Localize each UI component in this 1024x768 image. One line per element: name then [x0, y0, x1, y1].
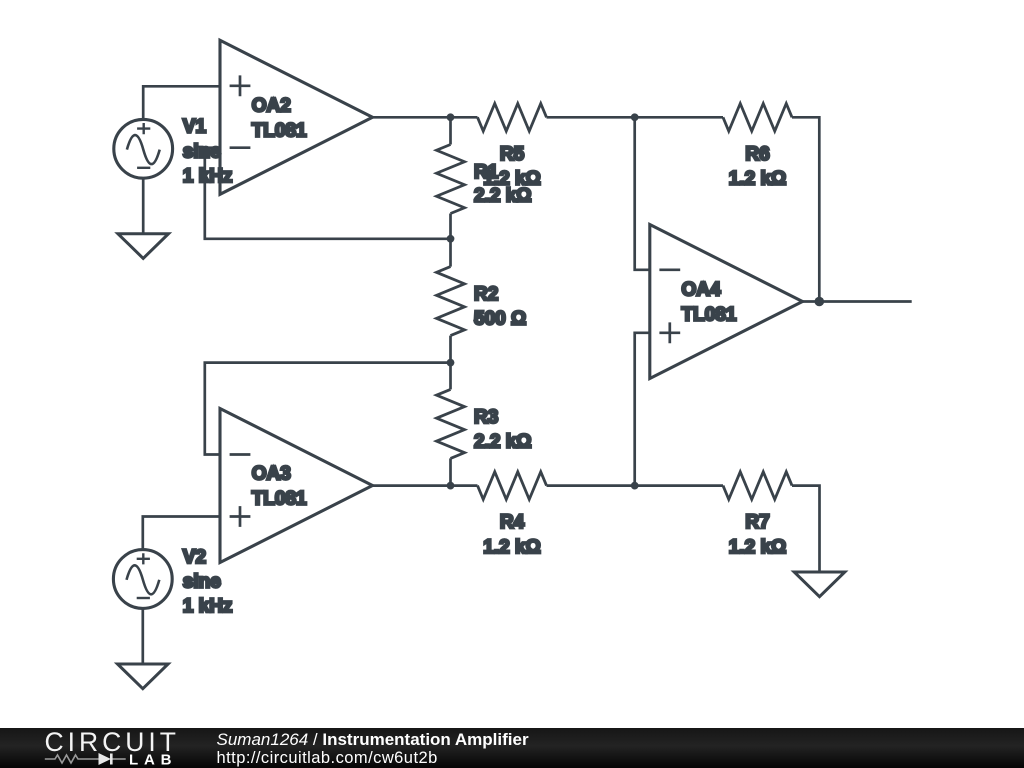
CircuitLab logo [40, 729, 195, 768]
svg-text:1.2 kΩ: 1.2 kΩ [729, 169, 787, 190]
label R5 [500, 144, 525, 165]
svg-text:2.2 kΩ: 2.2 kΩ [474, 186, 532, 207]
resistor R2 [437, 239, 465, 363]
footer bar [0, 728, 1024, 768]
value R4 [483, 537, 541, 558]
label R7 [745, 512, 769, 533]
value OA4 TL081 [682, 305, 737, 326]
label R6 [745, 144, 769, 165]
svg-text:TL081: TL081 [252, 120, 307, 141]
wire OA4 inverting input [635, 117, 650, 269]
value V2 sine 1 kHz [183, 572, 233, 618]
svg-text:1.2 kΩ: 1.2 kΩ [729, 537, 787, 558]
op-amp OA2 [220, 40, 373, 194]
label OA3 [252, 464, 291, 485]
resistor R3 [437, 363, 465, 486]
node at R4 right [631, 482, 639, 490]
value R7 [729, 537, 787, 558]
svg-text:R2: R2 [474, 284, 498, 305]
value R2 [474, 309, 526, 330]
svg-text:TL081: TL081 [682, 305, 737, 326]
value OA3 TL081 [252, 489, 307, 510]
wire V1 plus rail [143, 86, 220, 118]
footer url text [217, 749, 438, 768]
ground (below V1) [118, 234, 169, 259]
svg-text:2.2 kΩ: 2.2 kΩ [474, 431, 532, 452]
label R3 [474, 407, 498, 428]
resistor R5 [451, 104, 635, 132]
op-amp OA4 [650, 225, 803, 379]
value OA2 TL081 [252, 120, 307, 141]
op-amp OA3 [220, 409, 373, 563]
resistor R1 [437, 117, 465, 239]
wire V2 to ground [141, 609, 144, 664]
svg-text:R1: R1 [474, 162, 499, 183]
wire OA3 output [373, 484, 451, 487]
svg-text:TL081: TL081 [252, 489, 307, 510]
svg-text:LAB: LAB [129, 752, 177, 768]
svg-text:1 kHz: 1 kHz [183, 596, 233, 617]
label R4 [500, 512, 525, 533]
value R6 [729, 169, 787, 190]
resistor R6 [635, 104, 820, 302]
wire OA4 non-inverting input [635, 333, 650, 486]
svg-text:OA3: OA3 [252, 464, 291, 485]
svg-text:R5: R5 [500, 144, 525, 165]
node at R3 bottom [447, 482, 455, 490]
wire OA2 inverting feedback [205, 148, 451, 239]
label OA4 [682, 280, 722, 301]
node at OA4 output [815, 297, 825, 307]
node at R2 bottom [447, 359, 455, 367]
voltage source V2 [113, 550, 172, 609]
voltage source V1 [114, 119, 173, 178]
svg-text:R7: R7 [745, 512, 769, 533]
value R1 [474, 186, 532, 207]
svg-text:1 kHz: 1 kHz [183, 166, 233, 187]
svg-text:R3: R3 [474, 407, 498, 428]
label OA2 [252, 95, 291, 116]
svg-text:R6: R6 [745, 144, 769, 165]
ground (below V2) [118, 664, 169, 689]
svg-text:OA2: OA2 [252, 95, 291, 116]
wire OA2 output [373, 116, 451, 119]
svg-text:sine: sine [183, 141, 221, 162]
footer title text [217, 730, 529, 750]
svg-text:sine: sine [183, 572, 221, 593]
node at R1 top [447, 113, 455, 121]
resistor R4 [451, 472, 635, 500]
value R3 [474, 431, 532, 452]
svg-text:500 Ω: 500 Ω [474, 309, 526, 330]
svg-text:V1: V1 [183, 117, 207, 138]
label V2 [183, 547, 206, 568]
value R5 [483, 169, 541, 190]
node at R5 right [631, 113, 639, 121]
node at R1 bottom [447, 235, 455, 243]
wire V1 to ground [142, 179, 145, 234]
svg-text:1.2 kΩ: 1.2 kΩ [483, 537, 541, 558]
wire OA3 inverting feedback [205, 363, 451, 455]
svg-text:OA4: OA4 [682, 280, 722, 301]
resistor R7 [635, 472, 820, 572]
svg-text:R4: R4 [500, 512, 525, 533]
label R1 [474, 162, 499, 183]
ground (below R7) [794, 572, 845, 597]
value V1 sine 1 kHz [183, 141, 233, 187]
label V1 [183, 117, 207, 138]
svg-text:V2: V2 [183, 547, 206, 568]
label R2 [474, 284, 498, 305]
wire OA4 output [803, 300, 912, 303]
wire V2 plus rail [143, 517, 220, 549]
